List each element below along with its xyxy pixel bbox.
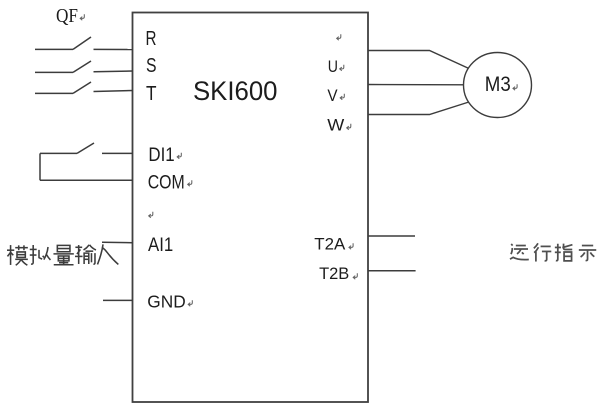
text 运行指示 char 行 — [534, 243, 551, 261]
svg-text:V: V — [327, 86, 338, 105]
switch to DI1 (link wire + blade) — [40, 143, 133, 180]
inverter box SKI600 — [133, 13, 369, 403]
wire AI1 — [102, 241, 133, 243]
svg-text:T: T — [146, 83, 157, 105]
text 模拟量输入 char 量 — [53, 245, 73, 264]
svg-text:W: W — [327, 115, 344, 134]
svg-text:GND: GND — [147, 291, 185, 311]
svg-text:AI1: AI1 — [148, 234, 173, 256]
paragraph mark after T2B — [353, 273, 357, 279]
svg-text:T2B: T2B — [319, 265, 349, 283]
wire V to motor — [368, 84, 470, 86]
svg-text:COM: COM — [148, 171, 185, 193]
paragraph mark after V — [340, 94, 344, 100]
text 运行指示 char 运 — [510, 244, 529, 260]
text 模拟量输入 char 拟 — [30, 245, 51, 264]
breaker QF pole R (wire + blade) — [35, 37, 133, 50]
svg-text:M3: M3 — [485, 72, 511, 96]
paragraph mark after W — [347, 124, 351, 130]
breaker QF pole S — [35, 61, 133, 72]
text 模拟量输入 char 模 — [7, 245, 28, 265]
wire T2B — [368, 270, 416, 272]
motor circle M3 — [464, 53, 532, 118]
wire COM — [40, 179, 133, 181]
wire GND — [103, 299, 133, 301]
svg-text:QF: QF — [56, 5, 78, 27]
svg-text:U: U — [328, 57, 338, 76]
text 模拟量输入 char 输 — [75, 245, 96, 264]
paragraph mark after DI1 — [177, 153, 181, 159]
paragraph mark after GND — [188, 300, 192, 306]
paragraph mark after U — [340, 65, 344, 71]
paragraph mark after QF — [80, 14, 84, 20]
wire W to motor — [368, 101, 472, 115]
svg-text:S: S — [146, 55, 157, 77]
breaker QF pole T — [35, 82, 133, 93]
svg-text:R: R — [146, 28, 157, 50]
svg-text:SKI600: SKI600 — [193, 76, 278, 106]
wire T2A — [368, 235, 415, 237]
svg-text:DI1: DI1 — [148, 144, 174, 166]
paragraph mark blank line above U — [337, 34, 341, 40]
paragraph mark after M3 — [513, 84, 517, 90]
text 模拟量输入 char 入 — [97, 244, 118, 264]
text 运行指示 char 示 — [579, 246, 596, 261]
text 运行指示 char 指 — [555, 244, 573, 261]
paragraph mark after COM — [188, 180, 192, 186]
paragraph mark after T2A — [349, 243, 353, 249]
wire U to motor — [368, 51, 470, 70]
svg-text:T2A: T2A — [314, 236, 345, 254]
paragraph mark blank line — [149, 212, 153, 218]
